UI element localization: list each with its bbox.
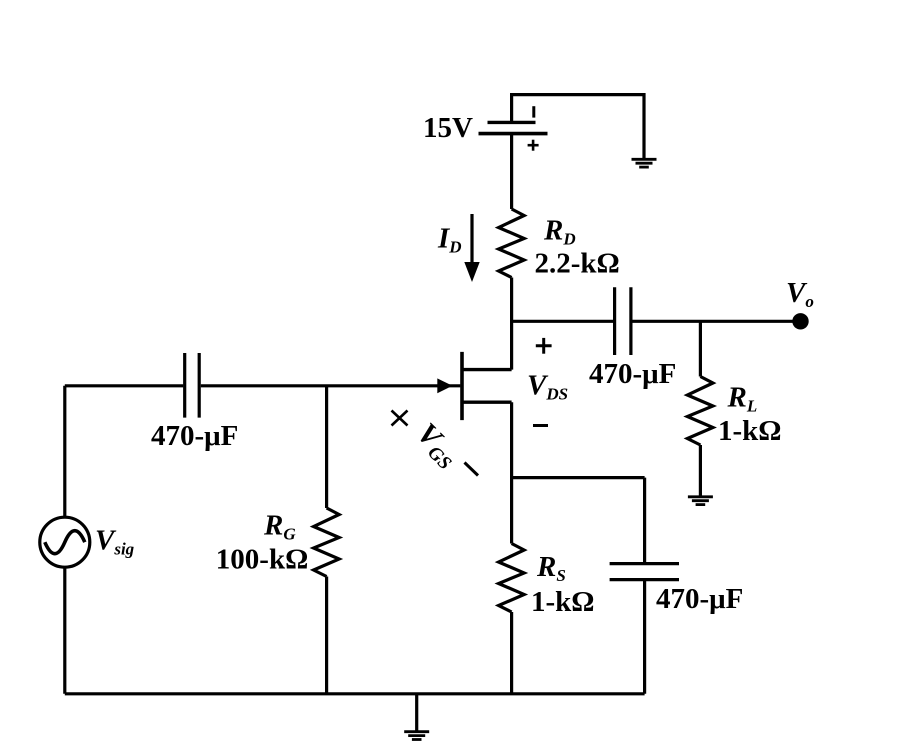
svg-text:470-μF: 470-μF	[656, 583, 743, 615]
svg-text:1-kΩ: 1-kΩ	[531, 586, 595, 618]
svg-text:ID: ID	[437, 223, 462, 257]
svg-text:VDS: VDS	[527, 370, 568, 404]
svg-text:470-μF: 470-μF	[589, 358, 676, 390]
svg-text:15V: 15V	[423, 112, 473, 144]
svg-text:Vsig: Vsig	[95, 525, 135, 559]
svg-text:RS: RS	[536, 551, 566, 585]
svg-text:RG: RG	[263, 510, 296, 544]
svg-text:470-μF: 470-μF	[151, 420, 238, 452]
svg-text:RD: RD	[543, 215, 576, 249]
svg-text:1-kΩ: 1-kΩ	[718, 415, 782, 447]
svg-text:100-kΩ: 100-kΩ	[216, 544, 309, 576]
svg-text:RL: RL	[727, 382, 758, 416]
svg-text:Vo: Vo	[786, 277, 814, 311]
svg-text:VGS: VGS	[408, 417, 465, 474]
svg-text:2.2-kΩ: 2.2-kΩ	[535, 248, 620, 280]
